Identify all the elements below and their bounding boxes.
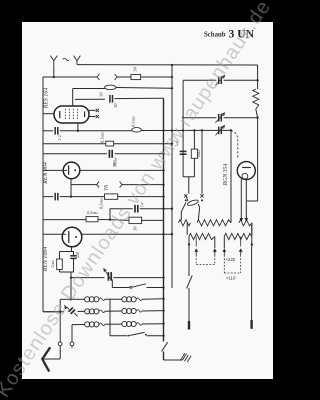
- wire row1 to rail: [142, 298, 164, 301]
- junction x194 top: [193, 129, 195, 131]
- coil row2 left: [78, 310, 85, 312]
- right rail upper: [257, 65, 259, 89]
- grid leak bottom wire: [60, 271, 75, 273]
- oval resistor 0,1 MOhm: [132, 128, 142, 132]
- capacitor on anode row: [109, 95, 111, 103]
- antenna symbol 1: [50, 56, 57, 66]
- svg-text:RGN 354: RGN 354: [222, 164, 229, 187]
- tube REN1004 cathode bar: [68, 231, 70, 243]
- tap lead a: [214, 237, 216, 249]
- grid leak cap lead low: [73, 259, 75, 272]
- tube RES164 envelope: [54, 106, 89, 123]
- switch end dot row4: [145, 334, 147, 336]
- tube RES164 grid dashes: [64, 109, 66, 121]
- wire RES164 filament left: [43, 113, 54, 115]
- wire REN904 grid left: [43, 169, 67, 171]
- tilde mark between antennas: [63, 58, 69, 60]
- wire row118: [183, 117, 216, 119]
- ground symbol: [183, 354, 187, 361]
- wire grid row: [73, 88, 105, 90]
- junction row2 rail A: [162, 309, 164, 311]
- svg-text:30: 30: [113, 103, 118, 108]
- wire antenna bus: [43, 76, 97, 78]
- junction antenna1 / bus: [53, 76, 55, 78]
- terminal 2 stub: [71, 346, 73, 349]
- contact dot left: [185, 199, 187, 201]
- wire row220 to corner: [98, 219, 110, 221]
- rail B: [171, 65, 173, 288]
- plug arrow tap2: [213, 248, 217, 251]
- resistor box on antenna bus: [131, 74, 141, 79]
- junction row1 rail A: [162, 298, 164, 300]
- junction detector row end: [230, 129, 232, 131]
- svg-text:50: 50: [99, 92, 104, 97]
- plug arrow tap1: [194, 248, 198, 251]
- wire row278 a: [71, 277, 105, 279]
- tube RES164 anode bar: [84, 111, 86, 117]
- wire row197 c: [118, 196, 164, 198]
- tube REN904 envelope: [63, 162, 80, 179]
- rail switch blade: [162, 342, 168, 351]
- tube REN1004 envelope: [62, 227, 82, 247]
- mains lead right: [251, 247, 253, 320]
- junction detector/rail B: [171, 129, 173, 131]
- wire row154 b: [115, 153, 164, 155]
- rail A: [163, 98, 165, 341]
- svg-text:0,1MΩ: 0,1MΩ: [100, 132, 106, 143]
- connector TA left: [97, 182, 100, 188]
- corner x183: [182, 80, 184, 177]
- wire anode row right: [114, 97, 163, 99]
- wire RES164 pin upper right: [89, 109, 95, 111]
- wire seg3 right down: [251, 223, 253, 235]
- left supply rail: [42, 77, 44, 312]
- junction switchrow rail A: [162, 286, 164, 288]
- wire top from antenna2 to right rail corner: [77, 64, 258, 66]
- junction detector/x183: [182, 129, 184, 131]
- wire corner up: [109, 209, 111, 220]
- grid leak top wire: [60, 251, 75, 253]
- wave switch trimmer arrow: [64, 305, 67, 310]
- wire row118 right: [224, 117, 258, 119]
- contact dot right: [201, 199, 203, 201]
- vertical to terminal 2: [71, 325, 73, 342]
- wire REN904 anode right: [80, 169, 164, 171]
- junction mains left: [188, 243, 190, 245]
- switch pivot dot row4: [128, 335, 130, 337]
- svg-text:0,5MΩ: 0,5MΩ: [87, 210, 98, 216]
- svg-text:50: 50: [112, 163, 117, 167]
- x mark pin lower: [96, 115, 99, 118]
- junction row197 rail A: [162, 195, 164, 197]
- svg-text:Schaub: Schaub: [204, 31, 226, 38]
- mains zigzag left: [189, 233, 215, 239]
- wire RES164 pin lower right: [89, 116, 95, 118]
- svg-text:50: 50: [132, 66, 137, 71]
- junction row220 corner: [109, 218, 111, 220]
- wire switch row4 a: [110, 335, 128, 337]
- svg-text:250: 250: [75, 252, 80, 258]
- wire row278 b: [113, 277, 163, 279]
- trimmer capacitor row80: [218, 77, 220, 85]
- terminal socket 2: [70, 342, 74, 346]
- wire row2 from rail corner: [43, 311, 64, 313]
- wire seg2 right vertical: [230, 130, 232, 222]
- x mark pin upper: [96, 109, 99, 112]
- wire row3 to rail: [142, 323, 164, 325]
- wire row1 corner: [60, 298, 71, 300]
- junction cathode row: [70, 195, 72, 197]
- switch row stub: [111, 280, 113, 288]
- dashed tap3 drop: [223, 255, 225, 273]
- junction row80 right rail: [256, 79, 258, 81]
- coil row1 right: [105, 298, 122, 300]
- svg-text:1-2: 1-2: [57, 135, 62, 140]
- mains lead left lower: [188, 288, 190, 321]
- wire switch row4 b: [147, 335, 164, 337]
- vertical x194: [193, 130, 195, 149]
- svg-text:REN 904: REN 904: [42, 162, 49, 185]
- antenna symbol 2: [74, 56, 81, 65]
- tube RGN354 envelope: [237, 162, 255, 180]
- grid leak cap lead: [73, 252, 75, 256]
- svg-text:0,1MΩ: 0,1MΩ: [131, 116, 137, 127]
- svg-text:TA: TA: [104, 184, 110, 190]
- junction anode1004 rail B: [171, 233, 173, 235]
- trimmer capacitor row278: [107, 272, 109, 281]
- x mark x201 bottom: [200, 194, 203, 197]
- vertical x201: [201, 130, 203, 193]
- junction row3 rail A: [162, 323, 164, 325]
- switch blade row4: [130, 332, 145, 335]
- wire detector row b: [60, 130, 132, 132]
- wire row220 resistor2: [110, 219, 129, 222]
- junction row118 right rail: [256, 117, 258, 119]
- wire REN1004 grid left: [43, 233, 66, 235]
- junction TA rail A: [162, 183, 164, 185]
- join bar x183-x194: [183, 176, 194, 178]
- wire row209 to rail: [140, 208, 172, 210]
- fuse lead left: [181, 202, 186, 212]
- wire row209: [110, 208, 133, 210]
- wire antenna1 drop: [53, 66, 55, 77]
- junction row209 rail A: [162, 208, 164, 210]
- wire left rail corner bottom: [43, 311, 60, 313]
- right rail lower: [256, 109, 258, 118]
- junction x201 top: [201, 129, 203, 131]
- svg-text:0,3MΩ: 0,3MΩ: [98, 198, 104, 209]
- plug arrow tap4: [239, 248, 243, 251]
- trimmer arrow row278: [104, 269, 112, 281]
- wire REN904 cathode down: [70, 179, 72, 197]
- tap lead b: [223, 237, 225, 249]
- junction row278 rail A: [162, 276, 164, 278]
- junction row144 rail B: [171, 143, 173, 145]
- tube REN1004 anode dot: [75, 236, 77, 238]
- tube RGN354 leg 1: [240, 179, 242, 218]
- coil row3 right: [105, 323, 122, 325]
- junction top wire / rail B: [171, 64, 173, 66]
- connector plug left half on bus: [97, 74, 100, 80]
- dashed tap4 drop: [240, 255, 242, 273]
- mains switch blade: [187, 276, 193, 289]
- oval resistor on grid row: [105, 85, 116, 89]
- svg-text:2MΩ: 2MΩ: [50, 260, 55, 268]
- wire row144 a: [43, 143, 106, 145]
- grid leak left lead low: [59, 270, 61, 272]
- svg-text:≈110: ≈110: [226, 276, 236, 281]
- capacitor 1uF on x183: [180, 150, 187, 152]
- wire row197 a: [43, 196, 53, 198]
- trimmer arrow row80: [215, 76, 224, 86]
- capacitor 1-2 on detector row: [54, 127, 56, 135]
- box resistor 0,5 MOhm: [86, 217, 98, 222]
- capacitor 1uF row209: [134, 205, 136, 213]
- wire row154 a: [43, 153, 107, 155]
- mains lead from terminal 1: [59, 346, 61, 359]
- wire switchrow a: [112, 287, 129, 289]
- mains lead right blob: [250, 320, 252, 329]
- box resistor 4 MOhm: [191, 149, 197, 158]
- wire RES164 grid top: [72, 89, 74, 107]
- wire REN1004 anode right: [82, 233, 172, 235]
- fuse lead right: [198, 204, 199, 207]
- grid leak resistor 2 MOhm: [57, 259, 63, 270]
- rail A lower part: [163, 352, 165, 361]
- wire rail to right leg: [247, 200, 258, 202]
- tube RGN354 bottom loop: [242, 173, 248, 179]
- wave switch lead: [74, 313, 77, 316]
- junction row154 rail A: [162, 153, 164, 155]
- trimmer capacitor det row: [218, 127, 220, 135]
- capacitor row197: [54, 193, 56, 201]
- coil row1 left: [71, 298, 85, 300]
- resistor zigzag right: [253, 89, 259, 109]
- junction coils row1 left: [70, 298, 72, 300]
- mains lead right tip: [251, 320, 253, 329]
- tube RGN354 filament bar: [242, 167, 251, 169]
- svg-text:RES 164: RES 164: [43, 88, 50, 110]
- wire to ground: [164, 359, 183, 361]
- center drop: [188, 177, 190, 194]
- tube REN904 anode dot: [74, 169, 76, 171]
- tube REN904 cathode bar: [68, 165, 70, 174]
- switch blade row288: [132, 284, 146, 287]
- wire row80 corner: [183, 79, 216, 81]
- junction anode row rail A: [162, 169, 164, 171]
- box resistor 50 row220: [129, 217, 142, 223]
- junction grid row / rail B: [171, 87, 173, 89]
- wire bus continues: [117, 76, 131, 78]
- box resistor 0,3 MOhm: [105, 194, 118, 199]
- capacitor 500pF: [108, 150, 110, 158]
- connector TA right: [120, 182, 123, 188]
- junction row4 rail A: [162, 335, 164, 337]
- wire RES164 cathode down: [77, 123, 79, 131]
- heater zigzag seg2: [197, 220, 231, 226]
- wire grid row to rail B: [116, 87, 172, 90]
- junction x183 row118: [182, 117, 184, 119]
- junction row2 crossing: [59, 311, 61, 313]
- fuse oval switch: [187, 199, 199, 207]
- mains lead left upper: [188, 247, 190, 276]
- junction grid leak bottom: [70, 276, 72, 278]
- svg-text:≈220: ≈220: [226, 257, 236, 262]
- wave switch cap bars: [69, 308, 73, 312]
- svg-text:4MΩ: 4MΩ: [196, 150, 201, 158]
- wire detector row a: [43, 130, 53, 132]
- wire row220 to rail A: [142, 219, 164, 221]
- vertical to terminal 1: [59, 299, 61, 342]
- vertical switch feed: [109, 299, 111, 336]
- tap1 stem: [195, 237, 197, 247]
- trimmer capacitor row118: [218, 114, 220, 122]
- junction mains right: [251, 243, 253, 245]
- mains left down: [188, 237, 190, 248]
- junction detector/rail A: [162, 129, 164, 131]
- junction anode1004 rail A: [162, 233, 164, 235]
- dashed drop to rectifier: [231, 130, 238, 158]
- switch pivot circle: [130, 286, 132, 288]
- wire detector row c: [141, 129, 231, 131]
- trimmer arrow det row: [215, 126, 224, 136]
- wire row2 to rail: [142, 310, 164, 312]
- terminal socket 1: [58, 342, 62, 346]
- wire TA branch: [71, 184, 97, 186]
- tube RGN354 leg 2: [245, 179, 247, 218]
- wire TA to rail A: [122, 184, 163, 186]
- dashed tap2 drop: [214, 255, 216, 265]
- tube RES164 filament bar: [59, 111, 61, 118]
- wire bus to rail B: [141, 76, 172, 78]
- grid leak capacitor: [70, 255, 76, 257]
- wire seg3 down: [251, 223, 253, 247]
- wire row197 b: [60, 196, 106, 198]
- fuse lever: [186, 197, 188, 201]
- dashed tap1 drop: [195, 255, 197, 265]
- mains arrow head: [42, 347, 50, 371]
- svg-text:REN 1004: REN 1004: [42, 247, 49, 273]
- wire row144 b: [114, 143, 172, 145]
- connector plug right half on bus: [115, 74, 118, 80]
- svg-text:50: 50: [133, 226, 138, 231]
- junction bus / rail B: [171, 76, 173, 78]
- wire seg1 to row2: [186, 223, 188, 235]
- junction RES164 cathode: [77, 130, 79, 132]
- trimmer arrow row118: [215, 113, 224, 123]
- wire switchrow b: [147, 287, 164, 289]
- wire row278 down: [70, 278, 72, 300]
- plug arrow tap3: [222, 248, 226, 251]
- box resistor row144: [106, 141, 114, 146]
- wire REN1004 cathode down: [71, 247, 73, 252]
- heater zigzag seg1: [179, 220, 191, 226]
- coil row3 left: [72, 324, 85, 326]
- dashed bus 220: [196, 264, 215, 266]
- mains zigzag right: [224, 233, 251, 239]
- coil row2 right: [105, 310, 122, 312]
- heater zigzag seg3: [239, 220, 252, 226]
- wire anode row left: [75, 98, 105, 100]
- grid leak down: [70, 272, 72, 278]
- wire row220 from rail: [43, 219, 86, 221]
- mains lead left tip: [188, 321, 190, 330]
- tap4 stem: [240, 237, 242, 247]
- wire row80 to right rail: [224, 79, 258, 81]
- dashed bus 110: [224, 272, 240, 274]
- x mark left contact: [184, 194, 187, 197]
- grid leak left lead: [59, 252, 61, 260]
- junction row209 rail B: [171, 208, 173, 210]
